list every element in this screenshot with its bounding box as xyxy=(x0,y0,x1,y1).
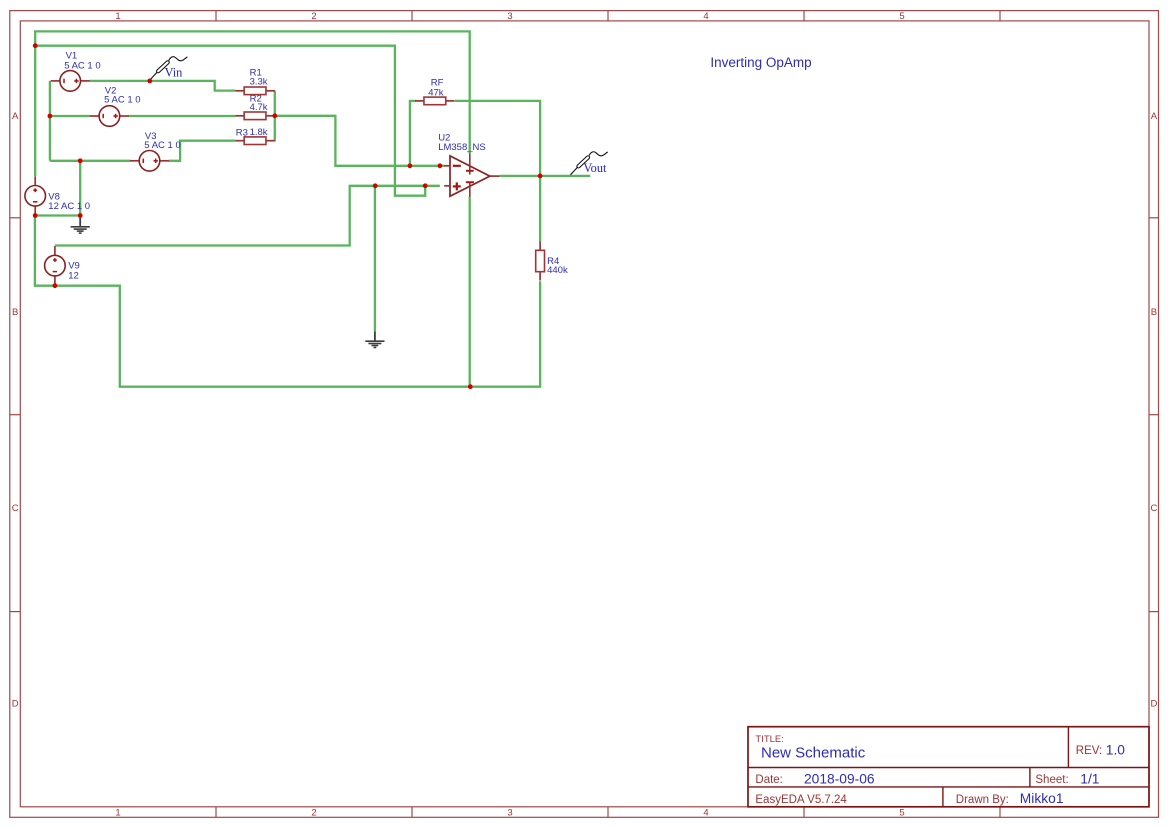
wire R1-R3 right bus xyxy=(274,91,276,142)
svg-text:4: 4 xyxy=(703,808,708,819)
svg-text:A: A xyxy=(12,111,19,122)
svg-text:B: B xyxy=(12,307,18,318)
resistor R3 xyxy=(235,140,244,142)
svg-text:2: 2 xyxy=(311,11,316,22)
svg-text:5 AC 1 0: 5 AC 1 0 xyxy=(104,95,140,106)
svg-text:Date:: Date: xyxy=(755,774,783,786)
svg-text:A: A xyxy=(1151,111,1158,122)
svg-text:Mikko1: Mikko1 xyxy=(1020,791,1064,806)
wire output to R4 top xyxy=(539,176,541,242)
svg-text:1.8k: 1.8k xyxy=(250,127,268,138)
resistor R1 xyxy=(235,90,244,92)
svg-text:C: C xyxy=(1150,503,1157,514)
wire noninv to ground xyxy=(374,186,376,332)
wire V2 left xyxy=(50,115,90,117)
resistor RF xyxy=(415,100,424,102)
voltage source V1 xyxy=(51,80,60,82)
svg-text:3.3k: 3.3k xyxy=(250,77,268,88)
svg-text:2: 2 xyxy=(311,808,316,819)
wire V2 right to R2 xyxy=(129,115,236,117)
svg-text:5: 5 xyxy=(899,808,904,819)
resistor R4 xyxy=(539,242,541,251)
voltage source V2 xyxy=(90,115,99,117)
probe Vout xyxy=(570,167,577,175)
wire top V+ rail xyxy=(35,31,470,176)
voltage source V9 xyxy=(54,246,56,255)
wire V1 left drop xyxy=(49,81,51,161)
wire bottom rail xyxy=(35,216,540,387)
wire V9+ to noninv input xyxy=(55,186,440,246)
wire V3 left xyxy=(50,160,131,162)
ground GND2 xyxy=(374,331,376,340)
svg-text:2018-09-06: 2018-09-06 xyxy=(804,771,875,786)
svg-text:5 AC 1 0: 5 AC 1 0 xyxy=(64,60,100,71)
wire V3 right to R3 xyxy=(169,141,236,161)
svg-text:12: 12 xyxy=(68,270,79,281)
svg-text:TITLE:: TITLE: xyxy=(755,734,784,745)
wire opamp V- drop xyxy=(469,197,471,387)
svg-text:1: 1 xyxy=(115,808,120,819)
svg-text:C: C xyxy=(12,503,19,514)
svg-text:4: 4 xyxy=(703,11,708,22)
ground GND1 xyxy=(79,217,81,226)
wire R2 out to opamp inv xyxy=(275,116,445,166)
wire RF right to output xyxy=(455,101,540,176)
svg-text:5 AC 1 0: 5 AC 1 0 xyxy=(144,140,180,151)
wire V3 node to ground xyxy=(79,161,81,216)
svg-text:3: 3 xyxy=(507,808,512,819)
svg-text:B: B xyxy=(1151,307,1157,318)
svg-text:47k: 47k xyxy=(428,88,444,99)
svg-text:LM358_NS: LM358_NS xyxy=(438,142,486,153)
voltage source V8 xyxy=(34,176,36,185)
svg-text:New Schematic: New Schematic xyxy=(761,744,866,761)
junction dots xyxy=(33,43,38,48)
wire V8+ to noninv jog xyxy=(35,46,425,196)
border ruler ticks xyxy=(215,11,217,21)
svg-text:Vin: Vin xyxy=(165,66,183,80)
wire V8- to ground xyxy=(35,214,80,216)
voltage source V3 xyxy=(130,160,139,162)
svg-text:1.0: 1.0 xyxy=(1106,743,1126,758)
svg-text:D: D xyxy=(12,698,19,709)
op-amp U2 xyxy=(450,156,490,196)
svg-text:4.7k: 4.7k xyxy=(250,102,268,113)
wire RF left drop xyxy=(410,101,416,166)
svg-text:1/1: 1/1 xyxy=(1080,771,1099,786)
svg-text:Drawn By:: Drawn By: xyxy=(956,794,1009,806)
svg-text:R3: R3 xyxy=(236,128,248,139)
wire opamp output xyxy=(499,175,590,177)
probe Vin xyxy=(150,72,157,80)
svg-text:Inverting OpAmp: Inverting OpAmp xyxy=(710,55,811,70)
svg-text:Vout: Vout xyxy=(583,161,607,175)
svg-text:440k: 440k xyxy=(547,265,568,276)
resistor R2 xyxy=(235,115,244,117)
svg-text:5: 5 xyxy=(899,11,904,22)
title block xyxy=(748,727,1149,807)
svg-text:1: 1 xyxy=(115,11,120,22)
svg-text:D: D xyxy=(1150,698,1157,709)
svg-text:Sheet:: Sheet: xyxy=(1035,774,1068,786)
wire Vin net xyxy=(90,81,236,91)
svg-text:3: 3 xyxy=(507,11,512,22)
svg-text:EasyEDA V5.7.24: EasyEDA V5.7.24 xyxy=(755,794,847,806)
svg-text:REV:: REV: xyxy=(1076,745,1102,757)
svg-text:12 AC 1 0: 12 AC 1 0 xyxy=(48,201,90,212)
